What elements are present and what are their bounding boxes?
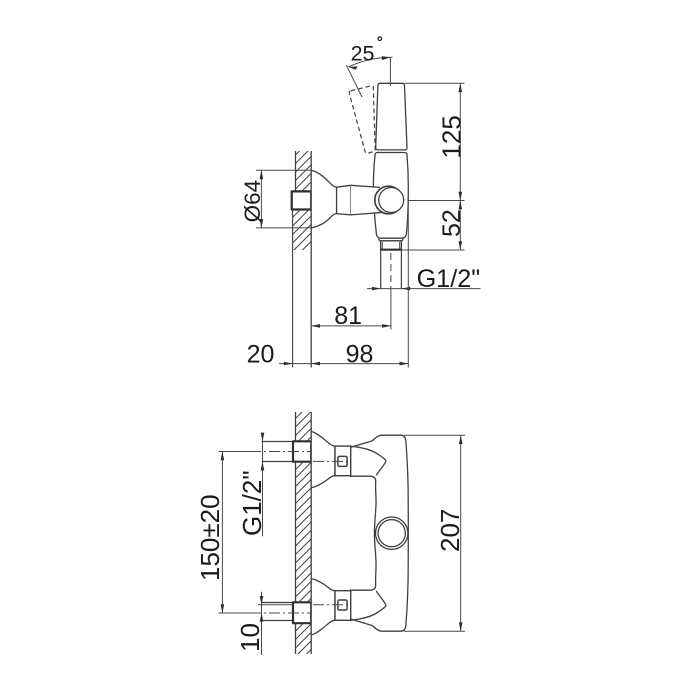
- angle dimension arc 25deg: [348, 57, 392, 67]
- bottom supply pipe: [262, 603, 293, 621]
- svg-text:10: 10: [235, 623, 265, 652]
- dia64 dimension line: [260, 170, 262, 228]
- wall front face line (bottom drawing): [310, 412, 312, 654]
- svg-text:150±20: 150±20: [195, 494, 225, 581]
- wall back face line (bottom drawing): [295, 412, 297, 654]
- concealed mounting box behind wall: [292, 191, 312, 209]
- G1/2 bottom arrow upper: [261, 433, 265, 442]
- arrow 81 right: [382, 324, 391, 328]
- label 25 degrees: [351, 37, 382, 66]
- cartridge cap outer circle: [376, 517, 408, 549]
- hose connector nut inner lines: [382, 242, 399, 249]
- holder clamp arm top edge: [351, 185, 380, 187]
- dimension line 10: [261, 592, 263, 655]
- svg-text:20: 20: [247, 340, 275, 368]
- extension line at hose connector (right): [401, 249, 464, 251]
- extension line x408 down to 98: [407, 202, 409, 368]
- wall back face / extension line lower: [292, 210, 294, 368]
- hose connector nut bottom edge (thick): [381, 249, 402, 251]
- extension line 10 top: [258, 604, 293, 606]
- cartridge cap inner circle: [378, 520, 405, 547]
- holder clamp ring (behind ball): [375, 186, 403, 214]
- arrow 98 left: [311, 362, 320, 366]
- arrow 207 top: [459, 435, 463, 444]
- holder clamp arm (covers grip edge): [351, 185, 380, 215]
- holder neck cylinder: [337, 185, 351, 215]
- G1/2 arrow left: [372, 287, 381, 291]
- extension line at ball center (right): [408, 200, 464, 202]
- extension line 150 bottom: [219, 612, 253, 614]
- wall front face line: [310, 151, 312, 368]
- extension line 207 top: [404, 434, 465, 436]
- inlet horn top (between block corners): [351, 446, 386, 475]
- dia64 extension line bottom: [256, 227, 311, 229]
- G1/2 dimension line (top drawing): [367, 288, 481, 290]
- wall hatched section lower part: [293, 210, 312, 251]
- wall hatched section upper part: [296, 151, 312, 191]
- dia64 arrow top: [260, 170, 264, 179]
- bottom faucet inlet centerline: [313, 604, 348, 606]
- hose connector nut: [381, 241, 402, 250]
- top supply pipe: [262, 442, 293, 462]
- extension line 207 bottom: [404, 630, 465, 632]
- svg-text:Ø64: Ø64: [240, 180, 265, 223]
- wall hatched section (bottom drawing): [296, 412, 312, 654]
- dimension line 125/52: [459, 83, 461, 250]
- arrow 125 bottom: [459, 192, 463, 201]
- dia64 arrow bottom: [260, 219, 264, 228]
- top union block: [335, 446, 351, 476]
- handshower grip section: [373, 153, 408, 239]
- arrow 52 bottom: [459, 241, 463, 250]
- svg-text:207: 207: [435, 509, 465, 552]
- mixer body outline: [350, 435, 408, 631]
- bottom escutcheon bell (top view): [311, 579, 335, 636]
- svg-text:81: 81: [334, 302, 362, 330]
- arrow 20 right-pointing: [284, 362, 293, 366]
- arc arrowhead right: [382, 56, 391, 60]
- hose connector cap below body: [379, 238, 403, 241]
- arrow 98 right: [400, 362, 409, 366]
- svg-text:25: 25: [351, 42, 375, 66]
- angle extension line (tilted): [346, 65, 362, 97]
- G1/2 dimension line (bottom drawing): [262, 433, 264, 536]
- holder ball joint: [379, 188, 404, 213]
- arrow 150 top: [221, 452, 225, 461]
- dia64 extension line top: [256, 169, 311, 171]
- svg-text:52: 52: [438, 209, 466, 237]
- handshower body (solid, vertical): [376, 83, 407, 150]
- dimension line 20/98: [279, 363, 408, 365]
- arrow 52 top: [459, 201, 463, 210]
- arrow 10 lower: [260, 613, 264, 622]
- arc arrowhead left: [348, 66, 357, 69]
- svg-text:G1/2": G1/2": [417, 265, 481, 293]
- hose tube left edge: [380, 250, 382, 289]
- wall back face line upper: [295, 151, 297, 191]
- hose tube centerline (dashed): [390, 253, 392, 288]
- bottom union nut in wall: [293, 602, 311, 623]
- top union nut in wall: [293, 441, 311, 461]
- G1/2 arrow right: [401, 287, 410, 291]
- dimension line 150: [221, 452, 223, 614]
- svg-text:125: 125: [436, 115, 466, 158]
- inlet horn bottom: [351, 591, 386, 620]
- arrow 81 left: [311, 324, 320, 328]
- arrow 10 upper: [260, 596, 264, 605]
- top faucet inlet centerline: [313, 460, 348, 462]
- G1/2 bottom arrow lower: [261, 462, 265, 471]
- extension line tube center down to 81: [390, 289, 392, 330]
- bottom union square broach: [338, 600, 347, 610]
- bottom wall pipe centerline: [250, 612, 312, 614]
- tilted handle (dashed, 25 deg): [349, 86, 375, 154]
- arrow 207 bottom: [459, 622, 463, 631]
- bottom union block: [335, 591, 351, 621]
- escutcheon bell (side view): [311, 170, 336, 228]
- dimension line 207: [460, 435, 462, 631]
- svg-text:98: 98: [346, 340, 374, 368]
- extension line at handle top (right): [405, 82, 465, 84]
- arrow 125 top: [459, 83, 463, 92]
- top escutcheon bell (top view): [311, 431, 335, 488]
- hose tube right edge: [400, 250, 402, 289]
- top wall pipe centerline: [250, 451, 312, 453]
- angle extension line (vertical): [389, 57, 391, 86]
- dimension line 81: [311, 325, 391, 327]
- top union square broach: [338, 456, 347, 466]
- extension line 150 top: [219, 451, 253, 453]
- holder clamp arm bottom edge: [351, 212, 383, 215]
- arrow 150 bottom: [221, 604, 225, 613]
- svg-text:G1/2": G1/2": [237, 470, 267, 536]
